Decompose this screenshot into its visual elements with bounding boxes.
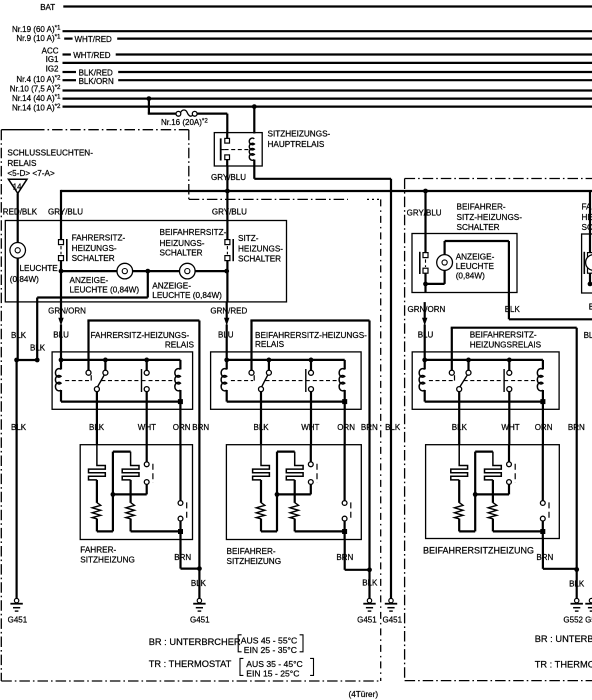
heater BEIFAHRER-SITZHEIZUNG [226, 445, 361, 540]
svg-text:BLK: BLK [89, 423, 105, 432]
wire RED/BLK from connector to Leuchte [17, 193, 19, 242]
svg-text:GRY/BLU: GRY/BLU [211, 173, 246, 182]
label FAHRERSITZ-HEIZUNGS-SCHALTER (2T, cut off) [582, 203, 592, 232]
svg-text:BEIFAHRERSITZ-HEIZUNGS-: BEIFAHRERSITZ-HEIZUNGS- [255, 331, 367, 340]
svg-text:RED/BLK: RED/BLK [3, 207, 38, 216]
svg-text:BRN: BRN [174, 553, 191, 562]
svg-text:HEIZUNGS-: HEIZUNGS- [160, 239, 205, 248]
svg-text:BEIFAHRERSITZ-: BEIFAHRERSITZ- [470, 330, 537, 339]
label BEIFAHRERSITZ-HEIZUNGSRELAIS 2T [470, 330, 542, 349]
svg-text:ORN: ORN [173, 423, 191, 432]
note BR : UNTERBRECHER [149, 635, 303, 655]
svg-text:SCHALTER: SCHALTER [72, 254, 115, 263]
svg-text:BLK: BLK [385, 423, 401, 432]
svg-text:BR : UNTERBRCHER: BR : UNTERBRCHER [149, 637, 241, 647]
svg-text:WHT: WHT [301, 423, 319, 432]
svg-text:WHT/RED: WHT/RED [73, 51, 111, 60]
label BEIFAHRERSITZ-HEIZUNGS-SCHALTER [160, 228, 227, 258]
wire GRY/BLU bus [61, 189, 592, 194]
svg-text:ORN: ORN [337, 423, 355, 432]
labels relay 2T output colors [452, 423, 585, 432]
wire fuse to main relay contact [197, 114, 227, 134]
connector arrow GRN/ORN to BLU (2T) [422, 302, 427, 329]
wire BLK to ground G552 [576, 570, 578, 599]
svg-text:GRY/BLU: GRY/BLU [212, 207, 247, 216]
svg-text:EIN 15 - 25°C: EIN 15 - 25°C [246, 668, 299, 678]
lamp ANZEIGE-LEUCHTE 2 (0,84W) [180, 263, 196, 279]
label FAHRER-SITZHEIZUNG [80, 546, 135, 565]
heater BEIFAHRERSITZHEIZUNG (2T) [426, 445, 560, 539]
svg-text:BLK: BLK [11, 423, 27, 432]
svg-text:FAHRERSITZ-: FAHRERSITZ- [72, 233, 126, 242]
wire rail Nr.10 [63, 89, 592, 91]
svg-text:AUS 45 - 55°C: AUS 45 - 55°C [241, 636, 297, 646]
svg-text:LEUCHTE: LEUCHTE [20, 264, 59, 273]
connector arrow GRN/RED to BLU (passenger) [224, 302, 229, 329]
wire relay 2T outputs to heater [459, 402, 543, 445]
wire BLK to ground G451 (passenger circuit) [368, 570, 370, 599]
svg-text:BLK: BLK [191, 579, 207, 588]
wire main relay output GRY/BLU down to bus [226, 166, 228, 191]
wire rail Nr.14 (10A) [63, 105, 592, 107]
svg-text:GRN/ORN: GRN/ORN [48, 306, 86, 315]
svg-text:TR : THERMOSTAT: TR : THERMOSTAT [535, 660, 592, 670]
label BEIFAHRERSITZ-HEIZUNGS-RELAIS [255, 331, 367, 349]
svg-text:FAHRERSITZ-: FAHRERSITZ- [582, 203, 592, 212]
svg-text:FAHRER-: FAHRER- [80, 546, 116, 555]
svg-text:FAHRERSITZ-HEIZUNGS-: FAHRERSITZ-HEIZUNGS- [91, 331, 190, 340]
svg-text:BEIFAHRER-: BEIFAHRER- [457, 203, 506, 212]
svg-text:BLK: BLK [569, 579, 585, 588]
svg-text:ANZEIGE-: ANZEIGE- [456, 252, 495, 261]
svg-text:WHT: WHT [138, 423, 156, 432]
wire BLK to ground G451 (driver circuit) [198, 569, 200, 599]
wire FAHRERSITZ switch output down [60, 271, 62, 302]
svg-text:SITZHEIZUNGS-: SITZHEIZUNGS- [268, 130, 331, 139]
label LEUCHTE (0,84W) [10, 264, 58, 284]
svg-text:SITZ-HEIZUNGS-: SITZ-HEIZUNGS- [457, 213, 523, 222]
label BEIFAHRER-SITZ-HEIZUNGS-SCHALTER (2T) [457, 203, 523, 232]
ground G552 [571, 598, 583, 611]
svg-text:BEIFAHRERSITZ-: BEIFAHRERSITZ- [160, 228, 227, 237]
svg-text:GRY/BLU: GRY/BLU [48, 207, 83, 216]
svg-text:BRN: BRN [361, 423, 378, 432]
wire switch outputs row [59, 261, 230, 274]
svg-text:SCHLUSSLEUCHTEN-: SCHLUSSLEUCHTEN- [7, 148, 93, 157]
wire relay1 outputs to heater1 [97, 402, 180, 445]
svg-text:Nr.9 (10 A)*1: Nr.9 (10 A)*1 [16, 33, 61, 43]
label SITZ-HEIZUNGS-SCHALTER [238, 234, 283, 264]
wire BRN heater1 to junction [181, 540, 202, 571]
svg-text:SCHALTER: SCHALTER [238, 255, 281, 264]
svg-text:IG1: IG1 [46, 55, 59, 64]
svg-text:ACC: ACC [42, 46, 59, 55]
wire from rail Nr.14(10A) to main relay coil [252, 104, 257, 133]
svg-text:BRN: BRN [336, 553, 353, 562]
svg-text:IG2: IG2 [46, 64, 59, 73]
svg-text:BAT: BAT [40, 3, 55, 12]
wire BLK lamp return outside box [14, 302, 39, 362]
svg-text:HEIZUNGSRELAIS: HEIZUNGSRELAIS [470, 340, 542, 349]
svg-text:RELAIS: RELAIS [165, 341, 195, 350]
label BEIFAHRER-SITZHEIZUNG [227, 547, 282, 566]
2-Tuerer variant boundary box [405, 179, 592, 681]
wire GRY/BLU drop to FAHRERSITZ switch [60, 190, 62, 240]
svg-text:BLK: BLK [254, 423, 270, 432]
lamp ANZEIGE-LEUCHTE 1 (0,84W) [117, 263, 133, 279]
svg-text:14: 14 [13, 182, 22, 191]
svg-text:HEIZUNGS-: HEIZUNGS- [72, 244, 117, 253]
svg-text:Nr.16 (20A)*2: Nr.16 (20A)*2 [161, 118, 208, 128]
svg-text:TR : THERMOSTAT: TR : THERMOSTAT [149, 659, 232, 669]
wire lamp common return to BLK [37, 271, 148, 302]
svg-text:RELAIS: RELAIS [7, 159, 37, 168]
wire GRY/BLU drop to 2T FAHRER switch [589, 191, 591, 253]
svg-text:WHT/RED: WHT/RED [75, 35, 113, 44]
relay BEIFAHRERSITZ-HEIZUNGSRELAIS (2T) [412, 328, 559, 410]
svg-text:LEUCHTE (0,84W): LEUCHTE (0,84W) [70, 286, 140, 295]
svg-text:SCHALTER: SCHALTER [582, 223, 592, 232]
wire main relay coil to BLK down-wire [254, 166, 391, 598]
switch BEIFAHRERSITZ (2T) [420, 252, 428, 286]
note TR : THERMOSTAT [149, 658, 314, 678]
switch FAHRERSITZ 2T (cut off) [584, 252, 592, 286]
svg-text:BLK: BLK [452, 423, 468, 432]
connector 14 (triangle) of Schlussleuchten-Relais [8, 179, 27, 193]
wire BLK to ground G451 left [16, 360, 18, 598]
wire SITZ switch output down [226, 271, 228, 302]
wire BAT rail [63, 5, 592, 7]
svg-text:(0,84W): (0,84W) [10, 275, 39, 284]
wire BRN heater2 to junction [345, 540, 372, 573]
labels relay2 output colors [254, 423, 379, 432]
svg-text:BEIFAHRERSITZHEIZUNG: BEIFAHRERSITZHEIZUNG [423, 545, 534, 555]
svg-text:HEIZUNGS-: HEIZUNGS- [582, 213, 592, 222]
svg-text:HAUPTRELAIS: HAUPTRELAIS [268, 140, 325, 149]
svg-text:G451: G451 [357, 615, 377, 624]
wire GRY/BLU drop to SITZ switch [226, 191, 228, 240]
wire BRN feed of FAHRERSITZ-HEIZUNGS-RELAIS [87, 321, 199, 569]
svg-text:SCHALTER: SCHALTER [457, 223, 500, 232]
svg-text:G451: G451 [8, 615, 28, 624]
svg-text:SITZ-: SITZ- [238, 234, 259, 243]
svg-text:GRY/BLU: GRY/BLU [407, 208, 442, 217]
svg-text:BRN: BRN [536, 553, 553, 562]
wire BLK lamp return 2T [509, 241, 592, 319]
wire switch output GRN/ORN 2T [424, 284, 426, 293]
svg-text:G552 G553: G552 G553 [563, 615, 592, 624]
svg-text:BLK: BLK [11, 331, 27, 340]
svg-text:LEUCHTE: LEUCHTE [456, 262, 495, 271]
label FAHRERSITZ-HEIZUNGS-SCHALTER [72, 233, 126, 263]
svg-text:<5-D> <7-A>: <5-D> <7-A> [7, 169, 55, 178]
svg-text:GRN/ORN: GRN/ORN [408, 305, 446, 314]
svg-text:HEIZUNGS-: HEIZUNGS- [238, 244, 283, 253]
wire BRN feed of BEIFAHRERSITZ-HEIZUNGSRELAIS (2T) [451, 328, 577, 571]
relay BEIFAHRERSITZ-HEIZUNGS-RELAIS [211, 321, 362, 410]
svg-text:LEUCHTE (0,84W): LEUCHTE (0,84W) [152, 291, 222, 300]
svg-text:AUS 35 - 45°C: AUS 35 - 45°C [246, 659, 302, 669]
label BEIFAHRERSITZHEIZUNG (2T) [423, 545, 534, 555]
wire rail Nr.4 BLK/ORN [63, 77, 592, 86]
svg-text:Nr.4 (10 A)*2: Nr.4 (10 A)*2 [16, 74, 61, 84]
svg-text:WHT: WHT [501, 423, 519, 432]
wire BRN heater 2T to junction [543, 539, 579, 572]
switch box 2T FAHRER (cut off) [582, 234, 592, 293]
switch FAHRERSITZ-HEIZUNGS-SCHALTER [59, 239, 67, 261]
lamp ANZEIGE-LEUCHTE (2T) [426, 241, 509, 284]
svg-text:BRN: BRN [568, 423, 585, 432]
svg-text:BR : UNTERBRCHER: BR : UNTERBRCHER [535, 634, 592, 644]
svg-text:RELAIS: RELAIS [255, 340, 285, 349]
heater FAHRER-SITZHEIZUNG [80, 445, 192, 540]
svg-text:SCHALTER: SCHALTER [160, 249, 203, 258]
label SCHLUSSLEUCHTEN-RELAIS <5-D> <7-A> [7, 148, 93, 177]
svg-text:G451: G451 [190, 615, 210, 624]
svg-text:BEIFAHRER-: BEIFAHRER- [227, 547, 276, 556]
wire rail Nr.9 WHT/RED [64, 35, 592, 44]
svg-text:(0,84W): (0,84W) [456, 272, 485, 281]
svg-text:BLK: BLK [30, 344, 46, 353]
ground G451 (main relay) [385, 598, 397, 611]
svg-text:SITZHEIZUNG: SITZHEIZUNG [80, 556, 135, 565]
wire rail ACC WHT/RED [63, 51, 592, 60]
svg-text:BLU: BLU [584, 331, 592, 340]
svg-text:GRN/RED: GRN/RED [210, 306, 247, 315]
connector arrow GRN/ORN to BLU (driver) [58, 302, 63, 329]
svg-text:ANZEIGE-: ANZEIGE- [152, 281, 191, 290]
wire rail IG2 BLK/RED [63, 69, 592, 78]
ground G451 (lamps) [10, 598, 22, 611]
wire rail Nr.19 [63, 30, 592, 32]
svg-text:G451: G451 [383, 615, 403, 624]
relay FAHRERSITZ-HEIZUNGS-RELAIS [52, 321, 193, 410]
label ANZEIGE-LEUCHTE (0,84W) 2T [456, 252, 495, 280]
svg-text:BRN: BRN [192, 423, 209, 432]
svg-text:BLK: BLK [362, 579, 378, 588]
label FAHRERSITZ-HEIZUNGS-RELAIS [91, 331, 195, 350]
ground G451 (passenger) [363, 598, 375, 611]
svg-text:Nr.14 (10 A)*2: Nr.14 (10 A)*2 [12, 103, 61, 113]
switch box 2T BEIFAHRER [412, 234, 517, 293]
svg-text:(4Türer): (4Türer) [349, 690, 379, 699]
wire rail IG1 [63, 62, 592, 64]
wire from rail Nr.14(40A) to fuse [147, 96, 177, 113]
4-Tuerer variant boundary box [1, 130, 380, 681]
lamp ANZEIGE 2T FAHRER (cut off) [586, 255, 592, 271]
label ANZEIGE-LEUCHTE 1 [70, 276, 140, 295]
labels relay1 output colors [89, 423, 209, 432]
fuse Nr.16 (20A) [176, 110, 197, 116]
svg-text:Nr.10 (7,5 A)*2: Nr.10 (7,5 A)*2 [10, 84, 61, 94]
svg-text:BLK: BLK [505, 305, 521, 314]
svg-text:ORN: ORN [535, 423, 553, 432]
svg-text:SITZHEIZUNG: SITZHEIZUNG [227, 557, 282, 566]
svg-text:BLK/ORN: BLK/ORN [79, 77, 114, 86]
wire GRY/BLU drop to 2T BEIFAHRER switch [424, 191, 426, 253]
switch assembly box (Schalter-Einheit) [5, 221, 286, 302]
wire BRN feed of BEIFAHRERSITZ-HEIZUNGS-RELAIS [250, 321, 369, 570]
svg-text:ANZEIGE-: ANZEIGE- [70, 276, 109, 285]
wire rail Nr.14 (40A) [63, 97, 592, 99]
relay SITZHEIZUNGS-HAUPTRELAIS [214, 133, 262, 166]
label SITZHEIZUNGS-HAUPTRELAIS [268, 130, 331, 149]
wire relay2 outputs to heater2 [261, 402, 345, 445]
label ANZEIGE-LEUCHTE 2 [152, 281, 222, 300]
ground G553 partial at edge [585, 598, 592, 611]
svg-text:EIN 25 - 35°C: EIN 25 - 35°C [244, 645, 297, 655]
ground G451 (driver) [193, 598, 205, 611]
lamp LEUCHTE (0,84W) [10, 243, 26, 303]
switch SITZ-HEIZUNGS-SCHALTER [225, 239, 233, 261]
svg-text:Nr.14 (40 A)*1: Nr.14 (40 A)*1 [12, 93, 61, 103]
